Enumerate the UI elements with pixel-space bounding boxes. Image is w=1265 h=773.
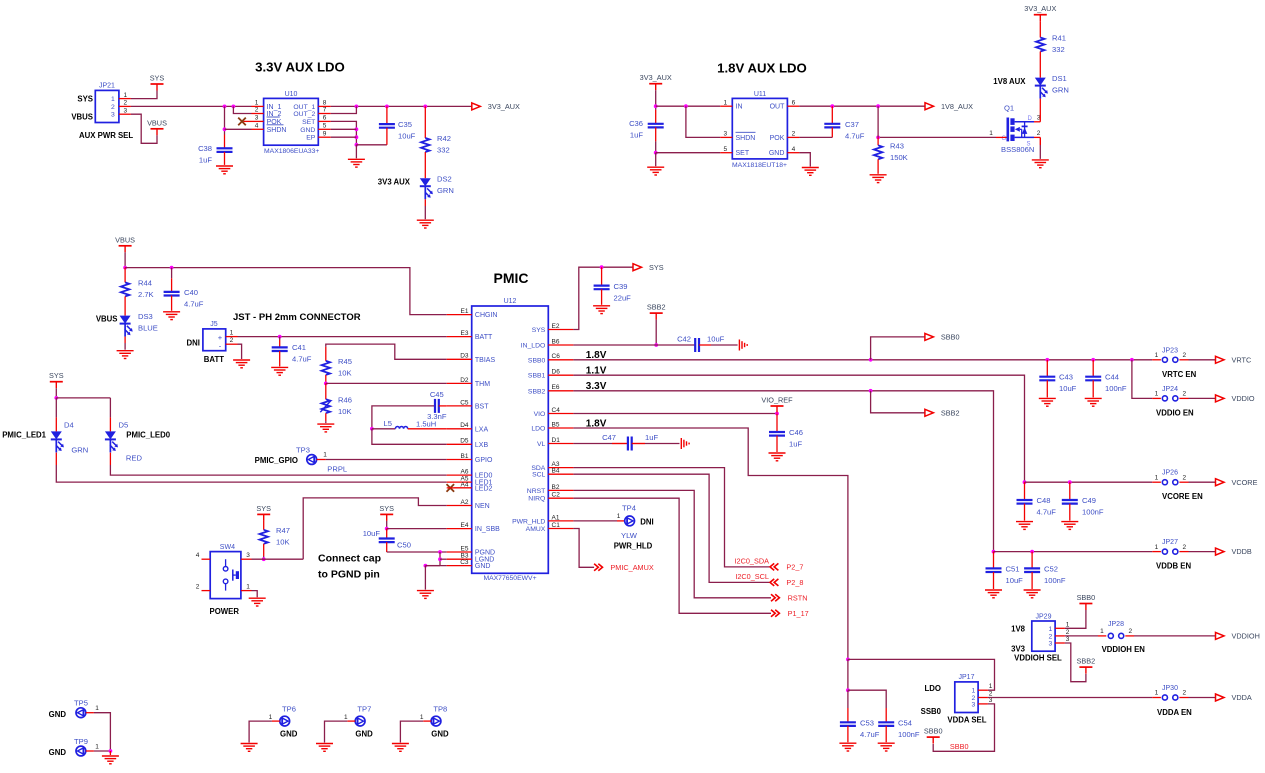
- svg-text:PRPL: PRPL: [327, 464, 347, 473]
- svg-text:BATT: BATT: [204, 355, 224, 364]
- junction: [370, 427, 374, 431]
- svg-text:VDDA SEL: VDDA SEL: [947, 716, 986, 725]
- wire source gnd: [1039, 145, 1041, 159]
- wire VIO: [573, 413, 777, 415]
- port VCORE: [1216, 478, 1258, 487]
- svg-text:1: 1: [111, 96, 115, 103]
- svg-text:A1: A1: [552, 514, 560, 521]
- JP21 pin 3: [119, 113, 131, 115]
- svg-text:IN_1: IN_1: [267, 104, 282, 111]
- svg-text:4: 4: [255, 123, 259, 130]
- svg-text:JP30: JP30: [1162, 685, 1178, 692]
- U12 pin E2 SYS: [548, 329, 573, 331]
- U12 pin D5 LXB: [447, 443, 472, 445]
- wire C47 to gnd: [645, 443, 680, 445]
- svg-text:7: 7: [323, 107, 327, 114]
- svg-text:C45: C45: [430, 390, 444, 399]
- wire PGND-LGND: [439, 552, 441, 566]
- svg-text:B6: B6: [552, 338, 560, 345]
- svg-text:5: 5: [723, 146, 727, 153]
- wire PGND: [387, 551, 447, 553]
- svg-text:JP17: JP17: [959, 674, 975, 681]
- wire THM: [326, 382, 447, 384]
- JP29 pin 1: [1055, 627, 1065, 629]
- svg-text:GND: GND: [475, 563, 491, 570]
- ground C46: [769, 453, 786, 461]
- wire GND link: [425, 565, 440, 567]
- test point TP4: [625, 516, 635, 526]
- ground C51: [985, 590, 1002, 598]
- wire: [124, 343, 126, 350]
- wire 3V3_AUX rail: [331, 105, 472, 107]
- JP17 pin 1: [978, 689, 988, 691]
- wire VCORE rail: [1025, 481, 1153, 483]
- ground C41: [271, 367, 288, 375]
- svg-text:R41: R41: [1052, 34, 1066, 43]
- wire JP29 pin1: [1065, 610, 1086, 628]
- junction: [385, 527, 389, 531]
- svg-text:C42: C42: [677, 335, 691, 344]
- svg-text:1: 1: [1155, 690, 1159, 697]
- svg-text:C5: C5: [460, 399, 469, 406]
- capacitor C52: [1024, 568, 1040, 572]
- svg-text:LDO: LDO: [531, 426, 545, 433]
- svg-text:D3: D3: [460, 353, 469, 360]
- svg-text:POK: POK: [770, 135, 785, 142]
- svg-text:SW4: SW4: [220, 544, 235, 551]
- U12 pin A4 LED2: [447, 487, 472, 489]
- svg-text:1: 1: [972, 688, 976, 695]
- wire SET/GND/EP: [331, 121, 357, 144]
- svg-text:LXB: LXB: [475, 442, 489, 449]
- junction: [170, 266, 174, 270]
- transistor Q1 BSS806N: [1008, 118, 1034, 142]
- wire: [225, 128, 252, 130]
- svg-text:I2C0_SCL: I2C0_SCL: [735, 572, 769, 581]
- svg-text:GND: GND: [769, 150, 785, 157]
- junction: [438, 550, 442, 554]
- jumper JP24: [1162, 396, 1178, 401]
- U12 pin E4 IN_SBB: [447, 528, 472, 530]
- svg-text:LED0: LED0: [475, 473, 493, 480]
- svg-text:VDDA EN: VDDA EN: [1157, 708, 1192, 717]
- svg-text:VDDIOH SEL: VDDIOH SEL: [1014, 654, 1062, 663]
- U12 pin D4 LXA: [447, 428, 472, 430]
- wire SYS: [573, 267, 633, 329]
- svg-text:4.7uF: 4.7uF: [845, 132, 865, 141]
- Q1 pin 1 gate: [996, 136, 1007, 138]
- wire: [655, 90, 657, 110]
- wire SHDN: [686, 106, 720, 137]
- svg-text:1uF: 1uF: [630, 131, 643, 140]
- wire: [424, 206, 426, 219]
- svg-text:SYS: SYS: [77, 94, 93, 103]
- wire IN_LDO: [573, 344, 695, 346]
- svg-text:C41: C41: [292, 343, 306, 352]
- svg-text:I2C0_SDA: I2C0_SDA: [735, 556, 770, 565]
- SW4 pin 1: [241, 590, 252, 592]
- svg-text:1: 1: [1155, 474, 1159, 481]
- svg-text:3.3V AUX LDO: 3.3V AUX LDO: [255, 60, 345, 75]
- wire SCL: [573, 474, 770, 582]
- U12 pin C5 BST: [447, 405, 472, 407]
- svg-text:NRST: NRST: [527, 488, 546, 495]
- svg-text:PMIC_LED1: PMIC_LED1: [2, 431, 46, 440]
- svg-text:4: 4: [792, 146, 796, 153]
- svg-text:SHDN: SHDN: [267, 127, 287, 134]
- svg-text:1V8_AUX: 1V8_AUX: [941, 102, 973, 111]
- svg-text:GRN: GRN: [71, 446, 88, 455]
- no-connect X U10 POK: [238, 118, 246, 126]
- svg-text:SHDN: SHDN: [736, 135, 756, 142]
- connector JP17 VDDA SEL: [955, 682, 978, 713]
- svg-text:JP23: JP23: [1162, 347, 1178, 354]
- svg-text:PMIC_GPIO: PMIC_GPIO: [255, 456, 298, 465]
- svg-text:E6: E6: [552, 384, 560, 391]
- svg-text:GRN: GRN: [1052, 86, 1069, 95]
- wire D5 top: [109, 398, 111, 418]
- svg-text:PWR_HLD: PWR_HLD: [512, 518, 545, 525]
- ground C44: [1085, 398, 1102, 406]
- svg-text:BLUE: BLUE: [138, 324, 158, 333]
- power flag VBUS: [115, 235, 135, 252]
- svg-text:C4: C4: [552, 407, 561, 414]
- ground R43: [870, 175, 887, 183]
- svg-text:PMIC_LED0: PMIC_LED0: [126, 431, 170, 440]
- svg-text:SSB0: SSB0: [921, 707, 942, 716]
- port VRTC: [1216, 355, 1252, 364]
- wire SBB1 1.1V: [573, 375, 1024, 482]
- capacitor C53: [840, 722, 856, 726]
- wire GPIO: [326, 459, 447, 461]
- wire: [124, 252, 126, 267]
- svg-text:3: 3: [111, 112, 115, 119]
- svg-text:10uF: 10uF: [363, 529, 381, 538]
- svg-text:VDDB: VDDB: [1232, 547, 1252, 556]
- svg-text:GPIO: GPIO: [475, 457, 493, 464]
- power flag SBB0: [924, 727, 943, 744]
- U12 pin B6 IN_LDO: [548, 344, 573, 346]
- svg-text:VBUS: VBUS: [115, 235, 135, 244]
- test point TP5: [76, 708, 86, 718]
- svg-text:NEN: NEN: [475, 503, 490, 510]
- svg-text:TP8: TP8: [433, 705, 447, 714]
- svg-text:E3: E3: [461, 330, 469, 337]
- wire LXB: [372, 429, 447, 445]
- svg-text:3: 3: [723, 131, 727, 138]
- svg-text:1: 1: [95, 743, 99, 750]
- wire VDDB rail: [994, 551, 1153, 553]
- svg-text:MAX1806EUA33+: MAX1806EUA33+: [264, 148, 319, 155]
- svg-text:TP4: TP4: [622, 503, 636, 512]
- svg-text:VCORE: VCORE: [1232, 478, 1258, 487]
- svg-text:G: G: [1002, 136, 1007, 142]
- svg-text:VDDA: VDDA: [1232, 693, 1252, 702]
- svg-text:2: 2: [1066, 629, 1070, 636]
- svg-text:IN_LDO: IN_LDO: [521, 343, 546, 350]
- U12 pin A2 NEN: [447, 505, 472, 507]
- switch SW4: [210, 552, 241, 599]
- svg-text:22uF: 22uF: [614, 294, 632, 303]
- svg-text:E2: E2: [552, 323, 560, 330]
- svg-text:SBB2: SBB2: [941, 408, 960, 417]
- jumper JP28: [1108, 633, 1123, 638]
- svg-text:TP7: TP7: [357, 705, 371, 714]
- JP28 pin 1 stub: [1098, 635, 1106, 637]
- U11 pin 2 POK: [787, 136, 799, 138]
- wire VBUS to CHGIN: [125, 268, 447, 315]
- wire C42 to gnd: [711, 344, 738, 346]
- wire: [131, 105, 252, 107]
- wire: [325, 421, 327, 423]
- capacitor C41: [272, 347, 288, 351]
- svg-text:E4: E4: [461, 522, 469, 529]
- power flag VBUS: [147, 118, 167, 135]
- wire: [655, 320, 657, 345]
- svg-text:D5: D5: [460, 438, 469, 445]
- junction: [232, 105, 236, 109]
- svg-text:2: 2: [1128, 628, 1132, 635]
- svg-text:JP21: JP21: [99, 83, 115, 90]
- wire POK: [799, 136, 832, 138]
- svg-text:Connect cap: Connect cap: [318, 553, 381, 565]
- junction: [654, 104, 658, 108]
- svg-text:SYS: SYS: [49, 371, 64, 380]
- svg-text:D4: D4: [64, 421, 74, 430]
- svg-text:B5: B5: [552, 421, 560, 428]
- svg-text:OUT_2: OUT_2: [293, 111, 315, 118]
- wire SBB2 3.3V: [573, 391, 993, 552]
- svg-text:BST: BST: [475, 403, 489, 410]
- U12 pin C2 NIRQ: [548, 497, 573, 499]
- svg-text:Q1: Q1: [1004, 104, 1014, 113]
- ground Q1: [1032, 160, 1049, 168]
- svg-text:1.8V: 1.8V: [586, 418, 607, 429]
- capacitor C39: [594, 286, 610, 290]
- junction: [654, 343, 658, 347]
- svg-text:1: 1: [1155, 544, 1159, 551]
- U12 pin D2 THM: [447, 382, 472, 384]
- wire LED top: [56, 397, 110, 399]
- chevron I2C0_SCL: [770, 579, 778, 586]
- junction: [1130, 358, 1134, 362]
- svg-text:150K: 150K: [890, 153, 908, 162]
- svg-text:1: 1: [344, 714, 348, 721]
- svg-text:E1: E1: [461, 308, 469, 315]
- wire TBIAS: [326, 344, 447, 359]
- capacitor C45: [435, 399, 439, 413]
- wire to gnd: [424, 566, 426, 590]
- U11 pin 6 OUT: [787, 105, 799, 107]
- junction: [876, 136, 880, 140]
- svg-text:C38: C38: [198, 144, 212, 153]
- svg-text:1: 1: [989, 683, 993, 690]
- test point TP3: [307, 455, 317, 465]
- jumper JP30: [1162, 695, 1178, 700]
- power flag SYS: [379, 504, 394, 521]
- svg-text:2: 2: [792, 131, 796, 138]
- junction: [600, 265, 604, 269]
- ground C53: [839, 743, 856, 751]
- svg-text:10uF: 10uF: [1006, 576, 1024, 585]
- connector JP21: [95, 90, 119, 122]
- svg-text:NIRQ: NIRQ: [528, 496, 545, 503]
- ground SW4: [249, 598, 266, 606]
- junction: [846, 688, 850, 692]
- svg-text:3V3: 3V3: [1011, 645, 1026, 654]
- svg-text:U12: U12: [504, 298, 517, 305]
- svg-text:PMIC_AMUX: PMIC_AMUX: [610, 563, 654, 572]
- chevron PMIC_AMUX: [594, 564, 602, 571]
- jumper JP26: [1162, 480, 1178, 485]
- svg-text:10uF: 10uF: [707, 335, 725, 344]
- wire: [224, 106, 226, 134]
- svg-text:VIO: VIO: [534, 411, 546, 418]
- svg-text:D6: D6: [552, 369, 561, 376]
- wire C40 top: [171, 268, 173, 279]
- svg-text:10uF: 10uF: [398, 132, 416, 141]
- svg-text:SYS: SYS: [649, 263, 664, 272]
- wire to U11 IN: [656, 105, 721, 107]
- svg-text:EP: EP: [306, 135, 316, 142]
- svg-text:8: 8: [323, 100, 327, 107]
- ground C43: [1039, 398, 1056, 406]
- svg-text:2: 2: [1049, 633, 1053, 640]
- wire VDDB: [1189, 551, 1216, 553]
- svg-text:SBB2: SBB2: [1077, 657, 1096, 666]
- svg-text:C44: C44: [1105, 373, 1119, 382]
- svg-text:E5: E5: [461, 545, 469, 552]
- junction: [123, 266, 127, 270]
- svg-text:D2: D2: [460, 377, 469, 384]
- svg-text:10K: 10K: [338, 407, 352, 416]
- port SBB2: [925, 408, 960, 417]
- wire: [55, 388, 57, 398]
- U10 pin 2 IN_2: [252, 113, 264, 115]
- wire VDDA: [988, 697, 1152, 699]
- U12 pin E5 PGND: [447, 551, 472, 553]
- svg-text:A6: A6: [461, 469, 469, 476]
- U12 pin B2 NRST: [548, 489, 573, 491]
- svg-text:C6: C6: [552, 353, 561, 360]
- svg-text:VDDIO EN: VDDIO EN: [1156, 408, 1194, 417]
- svg-text:TP5: TP5: [74, 699, 88, 708]
- svg-text:10uF: 10uF: [1059, 384, 1077, 393]
- svg-text:1.1V: 1.1V: [586, 366, 607, 377]
- svg-text:100nF: 100nF: [1082, 508, 1104, 517]
- ground J5: [233, 360, 250, 368]
- svg-text:PGND: PGND: [475, 550, 495, 557]
- svg-text:100nF: 100nF: [1044, 576, 1066, 585]
- wire SBB2 port: [871, 391, 925, 413]
- svg-text:L5: L5: [384, 419, 392, 428]
- wire SW4 to gnd: [252, 591, 258, 598]
- U10 pin 4 SHDN: [252, 128, 264, 130]
- SW4 pin 3: [241, 558, 252, 560]
- svg-text:TBIAS: TBIAS: [475, 357, 496, 364]
- svg-text:2: 2: [230, 337, 234, 344]
- svg-text:SBB2: SBB2: [647, 303, 666, 312]
- ground U11: [802, 168, 819, 176]
- junction: [654, 151, 658, 155]
- U10 pin 3 POK: [252, 120, 264, 122]
- ground U10: [348, 159, 365, 167]
- svg-text:MAX1818EUT18+: MAX1818EUT18+: [732, 162, 787, 169]
- svg-text:IN: IN: [736, 104, 743, 111]
- wire VDDIO: [1189, 397, 1216, 399]
- U12 pin E1 CHGIN: [447, 314, 472, 316]
- svg-text:C36: C36: [629, 119, 643, 128]
- wire C41 top: [279, 337, 281, 340]
- capacitor C40: [164, 292, 180, 296]
- svg-text:2: 2: [1182, 352, 1186, 359]
- port VDDIOH: [1216, 632, 1260, 641]
- power flag SBB2: [647, 303, 666, 320]
- svg-text:C39: C39: [614, 282, 628, 291]
- wire JP29 pin3: [1065, 643, 1086, 682]
- wire: [131, 91, 157, 99]
- junction: [846, 658, 850, 662]
- regulator U11 MAX1818: [732, 98, 787, 158]
- svg-text:SYS: SYS: [150, 74, 165, 83]
- svg-text:4.7uF: 4.7uF: [184, 299, 204, 308]
- test point TP6: [280, 716, 290, 726]
- svg-text:1.8V AUX LDO: 1.8V AUX LDO: [717, 61, 807, 76]
- svg-text:SET: SET: [736, 150, 750, 157]
- svg-text:P1_17: P1_17: [788, 609, 809, 618]
- svg-text:2: 2: [124, 100, 128, 107]
- junction: [869, 389, 873, 393]
- junction: [1068, 480, 1072, 484]
- chevron I2C0_SDA: [770, 563, 778, 570]
- ground C38: [216, 166, 233, 174]
- wire OUT_2: [331, 106, 357, 113]
- wire VDDIO branch: [1132, 360, 1152, 399]
- U12 pin A5 LED1: [447, 481, 472, 483]
- svg-text:D4: D4: [460, 422, 469, 429]
- U12 pin A6 LED0: [447, 474, 472, 476]
- wire VL red lead: [612, 443, 628, 445]
- svg-text:U11: U11: [754, 91, 766, 98]
- junction: [992, 550, 996, 554]
- resistor R41: [1036, 38, 1044, 52]
- U12 pin B3 LGND: [447, 558, 472, 560]
- svg-text:C48: C48: [1037, 496, 1051, 505]
- capacitor C38: [217, 148, 233, 152]
- wire VL: [573, 443, 612, 445]
- svg-text:1uF: 1uF: [789, 440, 802, 449]
- svg-text:3: 3: [972, 701, 976, 708]
- svg-text:C2: C2: [552, 492, 561, 499]
- svg-text:GND: GND: [49, 748, 67, 757]
- svg-text:2.7K: 2.7K: [138, 290, 154, 299]
- svg-text:1.8V: 1.8V: [586, 350, 607, 361]
- svg-text:TP3: TP3: [296, 446, 310, 455]
- svg-text:1: 1: [255, 100, 259, 107]
- wire SBB0 1.8V rail: [573, 359, 1152, 361]
- wire: [655, 141, 657, 152]
- U12 pin D3 TBIAS: [447, 358, 472, 360]
- junction: [262, 557, 266, 561]
- svg-text:IN_SBB: IN_SBB: [475, 526, 500, 533]
- wire SW4 to NEN: [252, 558, 304, 560]
- LED DS2: [420, 178, 433, 199]
- svg-text:JP24: JP24: [1162, 386, 1178, 393]
- JP17 pin 3: [978, 703, 988, 705]
- svg-text:SCL: SCL: [532, 472, 545, 479]
- junction: [438, 557, 442, 561]
- svg-text:2: 2: [1037, 130, 1041, 137]
